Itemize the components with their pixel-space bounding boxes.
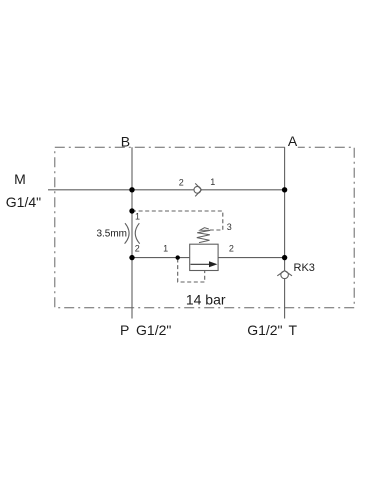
svg-text:3: 3 (227, 222, 232, 232)
svg-text:P G1/2": P G1/2" (120, 322, 171, 338)
node: pilot sense tap on relief line (176, 255, 180, 259)
orifice (restrictor) right arc (135, 223, 139, 244)
svg-text:3.5mm: 3.5mm (96, 228, 127, 239)
relief valve RV1 body (190, 244, 218, 270)
svg-text:A: A (288, 133, 298, 149)
wire: M gauge line left segment (48, 189, 194, 191)
relief valve pilot sense line (dashed) from upstream node to valve bottom (178, 259, 205, 283)
relief valve flow arrow (191, 263, 211, 265)
wire: M gauge line right segment (201, 189, 284, 191)
relief valve spring (197, 228, 210, 243)
svg-text:14 bar: 14 bar (186, 291, 226, 307)
orifice (restrictor) left arc (125, 223, 130, 244)
wire: relief valve line right segment (valve port 2 to A) (218, 257, 285, 259)
check valve V1 on M line (ball) (194, 186, 201, 193)
check valve RK3 seat (277, 271, 292, 276)
svg-text:M: M (14, 171, 26, 187)
svg-text:1: 1 (135, 212, 140, 222)
wire: B vertical line (P to B) (131, 147, 133, 318)
svg-text:2: 2 (135, 244, 140, 254)
svg-text:1: 1 (163, 243, 168, 253)
check valve RK3 (ball) (281, 271, 289, 279)
check valve V1 seat (195, 183, 201, 196)
pilot line (dashed) from node on B line to relief valve spring port 3 (132, 211, 223, 230)
svg-text:1: 1 (210, 177, 215, 187)
node: pilot tap on B line (129, 208, 134, 213)
svg-text:RK3: RK3 (294, 262, 315, 274)
node: A x M junction (282, 187, 287, 192)
svg-text:2: 2 (179, 177, 184, 187)
svg-text:B: B (121, 133, 130, 149)
svg-text:2: 2 (229, 243, 234, 253)
wire: A vertical line lower (RK3 down to T) (284, 278, 286, 318)
manifold boundary (dash-dot envelope) (55, 147, 354, 308)
wire: A vertical line upper (A port down to RK3) (284, 147, 286, 271)
svg-text:T: T (289, 322, 298, 338)
node: A x relief line junction (282, 255, 287, 260)
wire: relief valve line left segment (node to valve port 1) (132, 257, 190, 259)
svg-text:G1/2": G1/2" (247, 322, 282, 338)
svg-text:G1/4": G1/4" (6, 194, 41, 210)
white gap in boundary under port label A (286, 143, 298, 149)
node: B x M junction (129, 187, 134, 192)
node: B x relief line junction (129, 255, 134, 260)
